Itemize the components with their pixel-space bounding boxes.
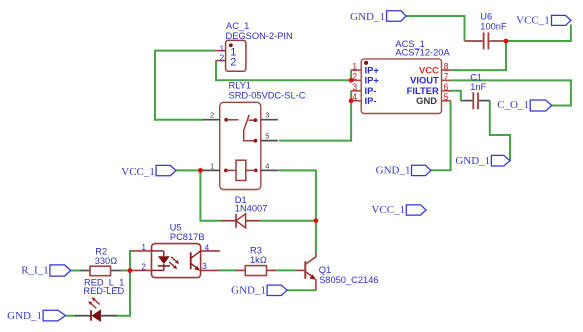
svg-text:SRD-05VDC-SL-C: SRD-05VDC-SL-C [229,91,306,101]
wire AC pin1 to relay pin2 [155,51,216,120]
ACS_1 orientation dot [364,61,368,65]
svg-text:RLY1: RLY1 [229,80,252,90]
connector AC_1 DEGSON-2-PIN [215,21,292,71]
resistor R2 330 ohm [81,247,122,276]
svg-text:IP-: IP- [365,95,377,106]
IC ACS_1 ACS712-20A [351,39,451,114]
wire relay pin4 to Q1 collector [278,170,316,253]
wire junction to U5 pin1 [130,251,132,271]
svg-text:R_I_1: R_I_1 [21,265,49,277]
svg-text:2: 2 [141,262,146,272]
svg-text:6: 6 [444,82,449,92]
port GND_1 mid [376,165,431,177]
port R_I_1 [21,265,70,277]
svg-text:1: 1 [141,242,146,252]
optocoupler U5 PC817B [132,222,220,277]
wire VCC_1 to relay pin1 [176,169,201,171]
svg-text:GND: GND [416,95,437,106]
svg-text:2: 2 [230,57,236,69]
wire ACS pin5 to GND_1 flag [431,101,451,171]
AC_1 pin-1 orientation dot [229,43,233,47]
wire U5 pin3 to R3 [219,269,237,271]
wire C1 to GND_1 flag [490,101,510,161]
svg-text:VCC_1: VCC_1 [371,204,405,216]
svg-text:Q1: Q1 [319,265,331,275]
diode D1 1N4007 [221,195,267,228]
junction node ACS pin4 [349,98,354,103]
svg-text:VIOUT: VIOUT [410,75,439,86]
svg-text:4: 4 [205,243,210,253]
svg-text:DEGSON-2-PIN: DEGSON-2-PIN [226,31,293,41]
wire U6 junction to VCC_1 flag [506,25,571,42]
svg-text:330Ω: 330Ω [95,256,118,266]
svg-text:3: 3 [352,82,357,92]
junction node U6 / VCC [504,39,509,44]
svg-text:2: 2 [210,111,214,120]
svg-text:3: 3 [265,111,269,120]
junction node D1 / relay pin4 / Q1 [314,218,319,223]
wire ACS pin6 to C1 [450,91,461,101]
svg-text:ACS712-20A: ACS712-20A [395,47,450,57]
port GND_1 near C1 [455,155,510,167]
U5 internal LED [158,256,170,264]
wire ACS IP- to relay pin5 [279,101,351,141]
port VCC_1 standalone [371,204,426,216]
svg-text:5: 5 [265,131,269,140]
junction node ACS pin2 [349,78,354,83]
svg-text:GND_1: GND_1 [455,155,490,167]
svg-text:IP+: IP+ [365,75,380,86]
svg-text:C_O_1: C_O_1 [497,99,529,111]
port C_O_1 [497,99,552,111]
capacitor U6 100nF [465,11,507,49]
relay RLY1 SRD-05VDC-SL-C [200,80,305,189]
wire GND_1 flag to LED [65,315,76,317]
svg-text:GND_1: GND_1 [231,284,266,296]
wire ACS pin7 to C_O_1 flag [450,80,571,105]
port VCC_1 mid left [121,165,176,178]
wire D1 to Q1 collector net [260,220,316,222]
svg-text:4: 4 [265,161,269,170]
wire U6 junction down to ACS pin8 [450,41,506,70]
wire junction down to LED [116,271,130,316]
svg-text:VCC_1: VCC_1 [121,166,155,178]
svg-text:3: 3 [202,261,207,271]
port GND_1 top [350,11,406,23]
svg-text:GND_1: GND_1 [7,310,42,322]
svg-text:2: 2 [220,53,225,63]
port GND_1 near Q1 [231,284,287,296]
port VCC_1 top right [516,15,571,27]
svg-text:GND_1: GND_1 [376,165,411,177]
RLY1 coil [236,160,246,180]
junction node relay pin1 / VCC [198,168,203,173]
svg-text:U6: U6 [480,11,492,21]
svg-text:GND_1: GND_1 [350,11,385,23]
resistor R3 1k ohm [236,246,276,276]
svg-text:AC_1: AC_1 [226,21,249,31]
wire ACS pin3 jumper [350,91,352,101]
wire R2 to junction [121,270,130,272]
svg-text:PC817B: PC817B [170,232,205,242]
wire Q1 emitter to GND_1 flag [287,289,316,291]
LED RED-LED [75,277,124,322]
RLY1 switch arm [244,115,250,131]
wire R3 to Q1 base [276,269,296,271]
svg-text:1N4007: 1N4007 [235,203,268,213]
svg-text:1nF: 1nF [470,82,486,92]
svg-text:7: 7 [444,72,449,82]
svg-text:5: 5 [444,92,449,102]
wire AC pin2 to ACS IP+ [216,61,351,81]
wire GND top flag to U6 [406,16,465,41]
svg-text:1kΩ: 1kΩ [250,255,267,265]
svg-text:VCC_1: VCC_1 [516,15,550,27]
svg-text:8: 8 [444,61,449,71]
svg-text:100nF: 100nF [480,21,507,31]
svg-text:RED-LED: RED-LED [83,286,124,296]
svg-text:1: 1 [210,161,214,170]
svg-text:1: 1 [352,61,357,71]
wire ACS pin1 jumper [350,70,352,80]
U5 phototransistor [190,252,192,269]
capacitor C1 1nF [461,73,490,110]
port GND_1 bottom left [7,310,65,322]
svg-text:C1: C1 [470,73,482,83]
svg-text:S8050_C2146: S8050_C2146 [319,275,378,285]
transistor Q1 S8050 [297,253,379,290]
RLY1 switch common contact [224,118,228,122]
wire R_I_1 to R2 [71,270,82,272]
junction node R2 / U5 / LED [128,268,133,273]
svg-text:R2: R2 [95,247,107,257]
wire relay pin1 junction down to D1 [200,170,221,220]
